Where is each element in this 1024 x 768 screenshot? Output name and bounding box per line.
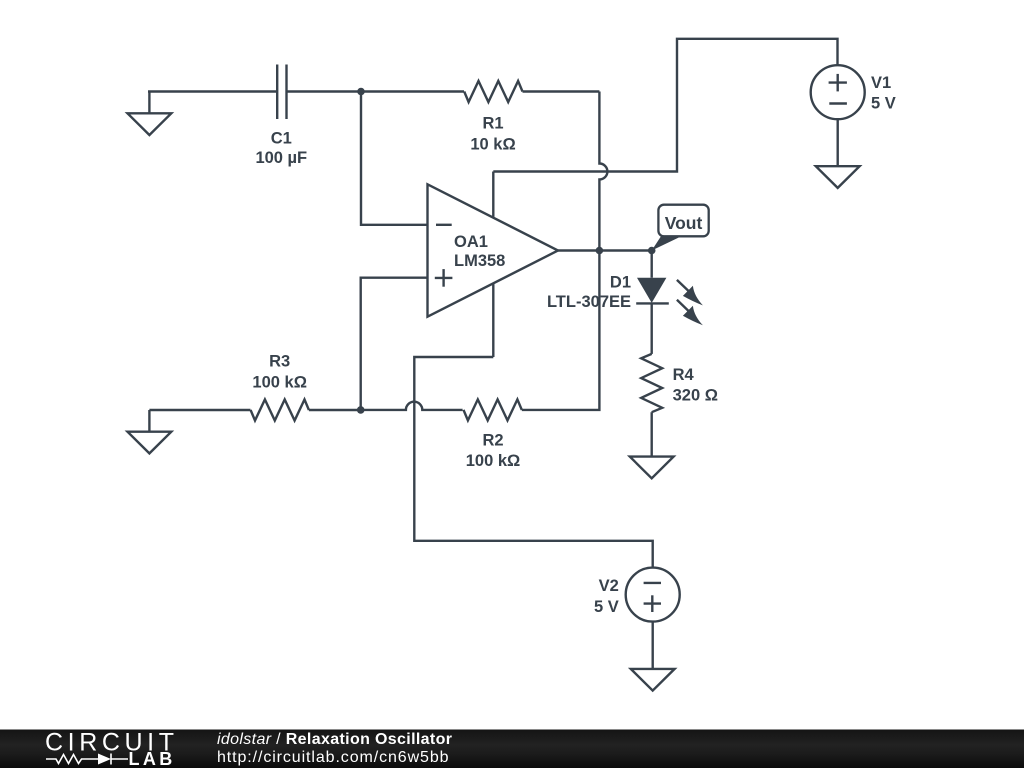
wire op-amp V+ pin up to rail	[492, 172, 494, 218]
wire R1 right to vertical drop	[523, 90, 600, 92]
svg-text:5 V: 5 V	[871, 95, 896, 113]
svg-text:Vout: Vout	[665, 213, 703, 233]
svg-text:100 µF: 100 µF	[255, 149, 307, 167]
svg-text:R3: R3	[269, 353, 290, 371]
svg-text:LAB: LAB	[129, 749, 176, 768]
wire node B to R2 with hop over V- wire	[361, 402, 463, 410]
svg-text:320 Ω: 320 Ω	[673, 386, 718, 404]
wire LED to R4	[651, 304, 653, 354]
wire gnd to R3	[149, 409, 250, 411]
resistor R1	[464, 81, 522, 102]
LED D1 cathode bar	[636, 302, 669, 304]
LED light arrow 1	[677, 280, 703, 306]
svg-text:R4: R4	[673, 366, 695, 384]
node B junction (R3 / R2 / + input)	[357, 406, 365, 414]
svg-text:D1: D1	[610, 274, 631, 292]
node A junction (C1 / R1 / op-amp inverting input)	[357, 88, 365, 96]
voltage source V1	[811, 65, 865, 119]
svg-text:5 V: 5 V	[594, 598, 619, 616]
svg-text:R1: R1	[482, 115, 503, 133]
LED light arrow 2	[677, 300, 703, 326]
svg-text:http://circuitlab.com/cn6w5bb: http://circuitlab.com/cn6w5bb	[217, 749, 449, 766]
resistor R3	[251, 400, 309, 421]
svg-text:idolstar / Relaxation Oscillat: idolstar / Relaxation Oscillator	[217, 731, 452, 748]
node output junction	[596, 247, 604, 255]
op-amp U1 triangle	[428, 184, 559, 316]
ground GND for V2	[631, 669, 675, 691]
node Vout junction	[648, 247, 656, 255]
svg-text:C1: C1	[271, 129, 292, 147]
wire V+ rail to V1	[493, 39, 837, 172]
op-amp minus input symbol	[436, 224, 452, 226]
voltage source V2 (minus on top)	[626, 568, 680, 622]
LED D1 triangle	[637, 278, 666, 303]
logo resistor-diode symbol	[46, 754, 128, 765]
svg-text:V2: V2	[599, 577, 619, 595]
ground GND for R4	[630, 457, 674, 479]
wire V2 to ground	[652, 622, 654, 669]
capacitor C1	[277, 65, 286, 120]
wire node A down to inverting input	[361, 92, 428, 225]
wire C1 right plate to node A	[287, 90, 361, 92]
svg-text:V1: V1	[871, 74, 891, 92]
svg-text:100 kΩ: 100 kΩ	[466, 452, 521, 470]
resistor R4 (vertical)	[641, 354, 662, 412]
wire gnd to C1 left plate	[148, 90, 277, 92]
wire non-inverting input to node B	[361, 278, 428, 410]
wire op-amp V- pin down	[492, 283, 494, 357]
ground GND for R3	[128, 410, 172, 453]
flag Vout	[652, 205, 709, 251]
wire V1 to ground	[837, 119, 839, 166]
svg-text:LM358: LM358	[454, 252, 505, 270]
wire Vout node to LED	[651, 251, 653, 278]
wire node A to R1	[361, 90, 464, 92]
svg-text:LTL-307EE: LTL-307EE	[547, 293, 631, 311]
wire R2 to output node	[522, 251, 600, 410]
svg-text:10 kΩ: 10 kΩ	[470, 136, 515, 154]
resistor R2	[464, 399, 522, 420]
wire vertical R1 to output node with hop over V+ rail	[599, 92, 607, 251]
svg-text:100 kΩ: 100 kΩ	[252, 374, 307, 392]
wire R3 to node B	[309, 409, 361, 411]
wire R4 to ground	[651, 412, 653, 456]
footer bar	[0, 729, 1024, 768]
op-amp plus input symbol	[435, 269, 453, 287]
svg-text:OA1: OA1	[454, 233, 488, 251]
ground GND for V1	[816, 166, 860, 188]
wire V- rail to V2	[414, 357, 652, 568]
wire op-amp output to Vout node	[558, 249, 652, 251]
ground GND top-left	[128, 92, 172, 136]
svg-text:R2: R2	[482, 432, 503, 450]
